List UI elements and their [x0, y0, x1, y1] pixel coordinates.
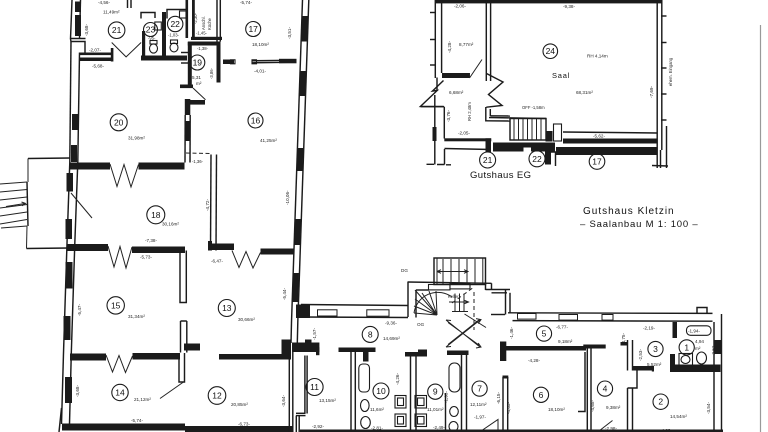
svg-text:41,25m²: 41,25m² [260, 138, 277, 143]
svg-text:6: 6 [539, 390, 544, 400]
window [602, 315, 613, 321]
svg-text:-9,38-: -9,38- [563, 4, 575, 9]
toilet room10 b [361, 417, 371, 429]
eg left wall lower [444, 149, 446, 165]
svg-text:-3,86-: -3,86- [209, 67, 214, 79]
svg-text:Gutshaus Kletzin: Gutshaus Kletzin [583, 206, 675, 217]
window [75, 2, 81, 13]
sink room10 b [395, 414, 406, 427]
niche stub a [181, 52, 188, 54]
bath wall 23-22 [162, 12, 166, 56]
annex left wall inner [441, 0, 443, 73]
svg-text:RH 4,14m: RH 4,14m [587, 54, 608, 59]
stair treads [443, 259, 475, 284]
dashed wall room20 [186, 152, 212, 155]
shared wall main-bottom wing b [296, 322, 299, 343]
eg stair hatch [514, 119, 541, 140]
bottom wall left [62, 424, 185, 431]
svg-text:8: 8 [368, 329, 373, 339]
svg-text:-10,06-: -10,06- [285, 190, 290, 205]
room19 top wall [188, 42, 221, 46]
door swing left wall [71, 193, 92, 218]
bath23 toilet [150, 44, 158, 53]
eg right hook3 [656, 150, 658, 168]
annex sw corner wall a [485, 107, 487, 122]
terrace bottom [27, 247, 70, 250]
stub to stair a [486, 120, 510, 122]
room3 wall lip [652, 366, 654, 372]
band step [316, 347, 319, 355]
bath1 wall lip [670, 354, 675, 371]
svg-text:31,98m²: 31,98m² [128, 136, 145, 141]
room 24 circle [543, 44, 558, 59]
window [66, 219, 73, 239]
room 19 circle [190, 55, 205, 70]
svg-text:-5,47-: -5,47- [77, 304, 82, 316]
svg-text:9: 9 [433, 387, 438, 397]
wall room20 bottom right [139, 163, 185, 170]
toilet room10 [361, 400, 370, 412]
exterior stair side [27, 182, 28, 226]
svg-text:-1,03-: -1,03- [168, 33, 180, 38]
shaft jog b [296, 415, 306, 417]
shaft lower a [295, 416, 297, 432]
window right wall [714, 340, 722, 354]
svg-text:23: 23 [146, 25, 156, 35]
stair box inner lines [437, 259, 483, 285]
right wall outer [292, 0, 303, 322]
svg-text:-4,65-: -4,65- [506, 402, 511, 414]
svg-text:9,18m²: 9,18m² [558, 339, 573, 344]
wall room12 top stub [184, 344, 200, 351]
svg-text:ehem. Eingang: ehem. Eingang [668, 57, 673, 86]
bay bump [697, 308, 707, 314]
wall 11-10 b [354, 352, 356, 432]
svg-text:12,11m²: 12,11m² [470, 402, 487, 407]
svg-text:-2,06-: -2,06- [454, 4, 466, 9]
svg-text:18,10m²: 18,10m² [252, 42, 269, 47]
window annex [433, 127, 437, 141]
upper stair box [434, 258, 486, 285]
svg-text:– Saalanbau M 1: 100 –: – Saalanbau M 1: 100 – [580, 219, 698, 230]
eg room 17 circle [589, 154, 605, 170]
wall step [71, 39, 86, 53]
window [294, 219, 301, 245]
window [71, 145, 77, 162]
svg-text:19: 19 [193, 58, 203, 68]
wall room15 top left [67, 244, 109, 251]
wall jog inner [509, 293, 511, 314]
dashed attic line [473, 292, 475, 330]
break dashes [427, 163, 452, 166]
window [72, 114, 78, 130]
wall 18-16 divide inner [215, 155, 218, 251]
svg-text:-3,68-: -3,68- [84, 24, 89, 36]
window [297, 148, 304, 171]
svg-text:-6,15-: -6,15- [496, 392, 501, 404]
wall 11-10 a [350, 352, 352, 432]
bath23 toilet tank [150, 41, 157, 45]
svg-text:5: 5 [542, 329, 547, 339]
door swing room7 [480, 420, 498, 432]
room3 bottom wall [633, 366, 654, 371]
svg-text:24: 24 [546, 46, 556, 56]
svg-text:Küche: Küche [207, 17, 212, 30]
svg-text:68,31m²: 68,31m² [576, 90, 593, 95]
svg-text:-4,65-: -4,65- [590, 400, 595, 412]
wall room13 top [208, 244, 234, 251]
svg-text:-4,72-: -4,72- [205, 199, 210, 211]
svg-text:14,69m²: 14,69m² [383, 336, 400, 341]
room3 tick [621, 342, 628, 346]
wall 15-13 stub [181, 321, 187, 353]
svg-text:-5,62-: -5,62- [593, 134, 605, 139]
svg-text:-1,94-: -1,94- [688, 329, 700, 334]
window [65, 377, 72, 403]
svg-text:-4,23-: -4,23- [660, 428, 672, 432]
keller arrow [449, 300, 469, 303]
stairwell right wall [486, 283, 492, 290]
svg-text:-2,98-: -2,98- [605, 426, 617, 431]
room 21 circle [108, 22, 125, 39]
svg-text:4,94: 4,94 [695, 339, 704, 344]
wall 2-4 a [627, 388, 629, 432]
room 6 circle [533, 387, 548, 402]
svg-text:-5,74-: -5,74- [131, 418, 143, 423]
svg-text:16: 16 [251, 116, 261, 126]
room 11 circle [306, 379, 323, 396]
eg stub down [545, 151, 551, 165]
eg band lower line [445, 149, 492, 150]
svg-text:5,52m²: 5,52m² [647, 362, 662, 367]
shaft wall a [304, 356, 306, 414]
svg-text:9,38m²: 9,38m² [606, 405, 621, 410]
svg-text:-1,97-: -1,97- [474, 415, 486, 420]
svg-text:-1,46-: -1,46- [509, 327, 514, 339]
annex inner wall [485, 0, 487, 81]
annex arrow top line [421, 106, 445, 108]
svg-text:-5,73-: -5,73- [140, 255, 152, 260]
svg-text:20: 20 [114, 117, 124, 127]
room 18 circle [147, 206, 165, 224]
wall room13 top lip [208, 241, 212, 251]
svg-text:-4,01-: -4,01- [254, 69, 266, 74]
stub to stair b [490, 115, 510, 117]
wall 5 bottom [500, 346, 586, 351]
stairwell left wall inner [415, 290, 417, 318]
eg door notch [524, 148, 532, 153]
terrace side lower [26, 226, 29, 249]
room 17 circle [246, 22, 261, 37]
toilet room1 [697, 352, 707, 364]
wall [80, 53, 113, 56]
svg-text:1: 1 [684, 342, 689, 352]
wall 20-16 divide top [185, 99, 191, 115]
wall 9-7 a [461, 355, 463, 432]
wall 17-16 line [252, 59, 297, 62]
fan stair arc [414, 292, 452, 313]
room 5 circle [536, 326, 551, 341]
window 20-16 [186, 121, 191, 141]
tick [661, 93, 667, 95]
room 13 circle [218, 300, 235, 317]
eg room 22 circle [529, 151, 545, 167]
boiler room9 [449, 363, 460, 392]
door recess line [491, 314, 505, 316]
wall 14-12 divide [179, 353, 185, 382]
room 10 circle [373, 383, 389, 399]
room19 left wall [188, 42, 192, 86]
wall 7-6 a [502, 377, 504, 432]
svg-text:-2,92-: -2,92- [312, 424, 324, 429]
wall stub top [127, 0, 129, 8]
wall [80, 58, 113, 62]
niche wall room9 [445, 393, 447, 432]
corridor top wall line a [301, 305, 408, 306]
left wall mid inner [75, 162, 78, 244]
bath22 bracket [167, 10, 187, 19]
eg band below saal [556, 147, 657, 155]
door W room13 [232, 251, 261, 269]
svg-text:20,85m²: 20,85m² [231, 402, 248, 407]
wall stair to corridor [486, 290, 511, 293]
niche stub b [181, 62, 188, 64]
svg-text:-9,36-: -9,36- [385, 321, 397, 326]
window [301, 16, 308, 42]
corner fill [296, 305, 310, 319]
keller treads [452, 294, 468, 312]
annex inner wall 2 [490, 0, 492, 81]
eg tick [652, 165, 668, 168]
svg-text:-1,36-: -1,36- [192, 159, 204, 164]
svg-text:-2,30-: -2,30- [193, 12, 198, 24]
door W room15 [108, 246, 132, 268]
svg-text:15: 15 [111, 300, 121, 310]
left wall lower [64, 244, 68, 354]
bathtub room1 [687, 326, 712, 336]
svg-text:-3,64-: -3,64- [281, 395, 286, 407]
svg-text:m²: m² [196, 81, 202, 86]
toilet room9 niche b [449, 422, 458, 432]
svg-text:6,68m²: 6,68m² [449, 90, 464, 95]
wall 17-16 stub [223, 60, 234, 65]
corridor top wall right line a [508, 312, 713, 315]
annex sw corner wall b [489, 109, 491, 116]
room 2 circle [653, 394, 668, 409]
window [75, 15, 81, 36]
svg-text:7: 7 [477, 384, 482, 394]
svg-text:Saal: Saal [552, 71, 570, 80]
svg-text:11,01m²: 11,01m² [427, 407, 444, 412]
svg-text:-6,47-: -6,47- [211, 259, 223, 264]
sink room1 inner [681, 356, 690, 364]
saal bump [546, 131, 553, 142]
corridor top wall line b [301, 316, 408, 319]
svg-text:-4,28-: -4,28- [447, 41, 452, 53]
wall room14 top right [133, 353, 181, 360]
room 22 circle [168, 16, 183, 31]
svg-text:-4,75-: -4,75- [621, 333, 626, 345]
shaft wall b [306, 356, 308, 414]
svg-text:-4,28-: -4,28- [528, 358, 540, 363]
wall 9-7 b [466, 355, 468, 432]
bath1 bottom wall [670, 365, 721, 373]
svg-text:5,31: 5,31 [192, 75, 201, 80]
wall 10-9 lintel [405, 352, 427, 357]
paper edge [760, 25, 762, 432]
svg-text:-4,56-: -4,56- [98, 0, 110, 5]
jagged arrow right [486, 74, 503, 108]
door swing annex [470, 60, 483, 79]
svg-text:-2,49-: -2,49- [433, 425, 445, 430]
wall stub top b [130, 0, 132, 8]
room12 right wall a [288, 352, 290, 432]
svg-text:-6,77-: -6,77- [556, 325, 568, 330]
svg-text:4: 4 [603, 384, 608, 394]
svg-text:-5,74-: -5,74- [240, 0, 252, 5]
wall room12 right step [282, 340, 292, 360]
eg right hook [660, 150, 662, 168]
annex left wall [434, 0, 436, 78]
room 3 circle [648, 341, 663, 356]
shared wall main-bottom wing a [290, 322, 293, 343]
saal right wall inner [661, 0, 663, 150]
left wall inner [78, 53, 80, 163]
room12 right wall b [292, 352, 294, 432]
door W room20 [110, 164, 139, 187]
wall room14 top left [70, 354, 106, 361]
toilet room9 niche [450, 407, 459, 417]
bath22 toilet [170, 43, 178, 52]
svg-text:-4,26-: -4,26- [395, 373, 400, 385]
svg-text:-1,95-: -1,95- [444, 391, 449, 403]
room 15 circle [107, 297, 124, 314]
svg-text:17: 17 [592, 157, 602, 167]
saal pillar [554, 124, 562, 141]
svg-text:21,12m²: 21,12m² [134, 397, 151, 402]
svg-text:-2,05-: -2,05- [458, 131, 470, 136]
svg-text:-2,81-: -2,81- [371, 426, 383, 431]
svg-text:-5,44-: -5,44- [282, 288, 287, 300]
wall 7-6 b [507, 377, 509, 432]
window [66, 262, 73, 289]
left wall [70, 42, 71, 163]
wall 7-6 cap [503, 376, 509, 379]
tick [430, 12, 436, 14]
window [292, 273, 299, 302]
stair landing 2 [450, 284, 470, 289]
wire [71, 0, 73, 39]
svg-text:-2,19-: -2,19- [643, 326, 655, 331]
wall 10-9 step [418, 350, 427, 354]
dashed diagonal [452, 287, 474, 303]
bottom wall step [185, 426, 294, 432]
wall 9-7 lintel [447, 351, 469, 356]
tick [661, 67, 667, 69]
window [559, 315, 578, 321]
svg-text:-3,51-: -3,51- [287, 27, 292, 39]
svg-text:18,10m²: 18,10m² [548, 407, 565, 412]
svg-text:m²: m² [695, 346, 701, 351]
sink room10 [395, 396, 406, 409]
svg-text:-2,07-: -2,07- [89, 48, 101, 53]
svg-text:30,16m²: 30,16m² [162, 222, 179, 227]
svg-text:RH 2,48m: RH 2,48m [467, 102, 472, 121]
door V [112, 43, 141, 57]
door W room14 [106, 355, 133, 373]
svg-text:13: 13 [222, 303, 232, 313]
wall room20 bottom left [70, 163, 111, 170]
svg-text:22: 22 [170, 19, 180, 29]
annex lower left wall [434, 95, 436, 165]
kitchen shaft wall [186, 0, 189, 38]
room 14 circle [112, 384, 128, 400]
eg band mid [493, 143, 555, 152]
stairwell top wall [408, 282, 492, 283]
room 20 circle [110, 114, 127, 131]
svg-text:-2,52-: -2,52- [711, 344, 716, 356]
room19 bottom stub [180, 85, 193, 89]
room668 bottom wall [444, 138, 491, 141]
window [518, 314, 537, 320]
svg-text:-7,69-: -7,69- [649, 86, 654, 98]
tick [661, 42, 667, 44]
stair landing 1 [429, 285, 451, 290]
svg-text:17: 17 [248, 24, 258, 34]
bath wall 21-23 [142, 31, 145, 57]
svg-text:22: 22 [532, 154, 542, 164]
room19 right wall [217, 42, 221, 83]
wall 6-4 a [586, 349, 588, 432]
svg-text:-95-: -95- [148, 36, 156, 41]
svg-text:3: 3 [653, 344, 658, 354]
eg right hook2 [666, 126, 668, 168]
stairwell inner wall [416, 289, 429, 291]
wall room11 left band [292, 343, 319, 353]
tick [661, 119, 667, 121]
room 8 circle [362, 326, 378, 342]
svg-text:-7,38-: -7,38- [145, 238, 157, 243]
svg-text:12: 12 [212, 391, 222, 401]
wall 17-16 knob [231, 60, 236, 64]
X cross [446, 319, 481, 348]
wall post [111, 48, 114, 62]
bathtub room10 [359, 364, 370, 392]
bath22 toilet tank [171, 40, 178, 44]
kitchen shaft right wall b [219, 0, 221, 42]
wall 20-16 stub [190, 100, 206, 105]
wall 20-16 divide [184, 115, 186, 163]
window [64, 316, 71, 340]
room6 notch [578, 352, 585, 412]
svg-text:10: 10 [376, 386, 386, 396]
room 12 circle [208, 387, 226, 405]
kitchen wall [191, 37, 222, 40]
wall 18-16 divide [210, 155, 213, 251]
svg-text:-3,76-: -3,76- [446, 110, 451, 122]
jagged arrow left wall line [436, 78, 438, 91]
svg-text:21: 21 [483, 155, 493, 165]
window [318, 310, 338, 316]
window [367, 310, 389, 316]
corridor top wall right line b [513, 320, 713, 323]
svg-text:2: 2 [658, 397, 663, 407]
shaft lower b [298, 416, 300, 432]
eg corner right [486, 138, 492, 152]
svg-text:-5,68-: -5,68- [92, 64, 104, 69]
left wall bottom inner [70, 353, 72, 424]
wire [59, 408, 62, 432]
